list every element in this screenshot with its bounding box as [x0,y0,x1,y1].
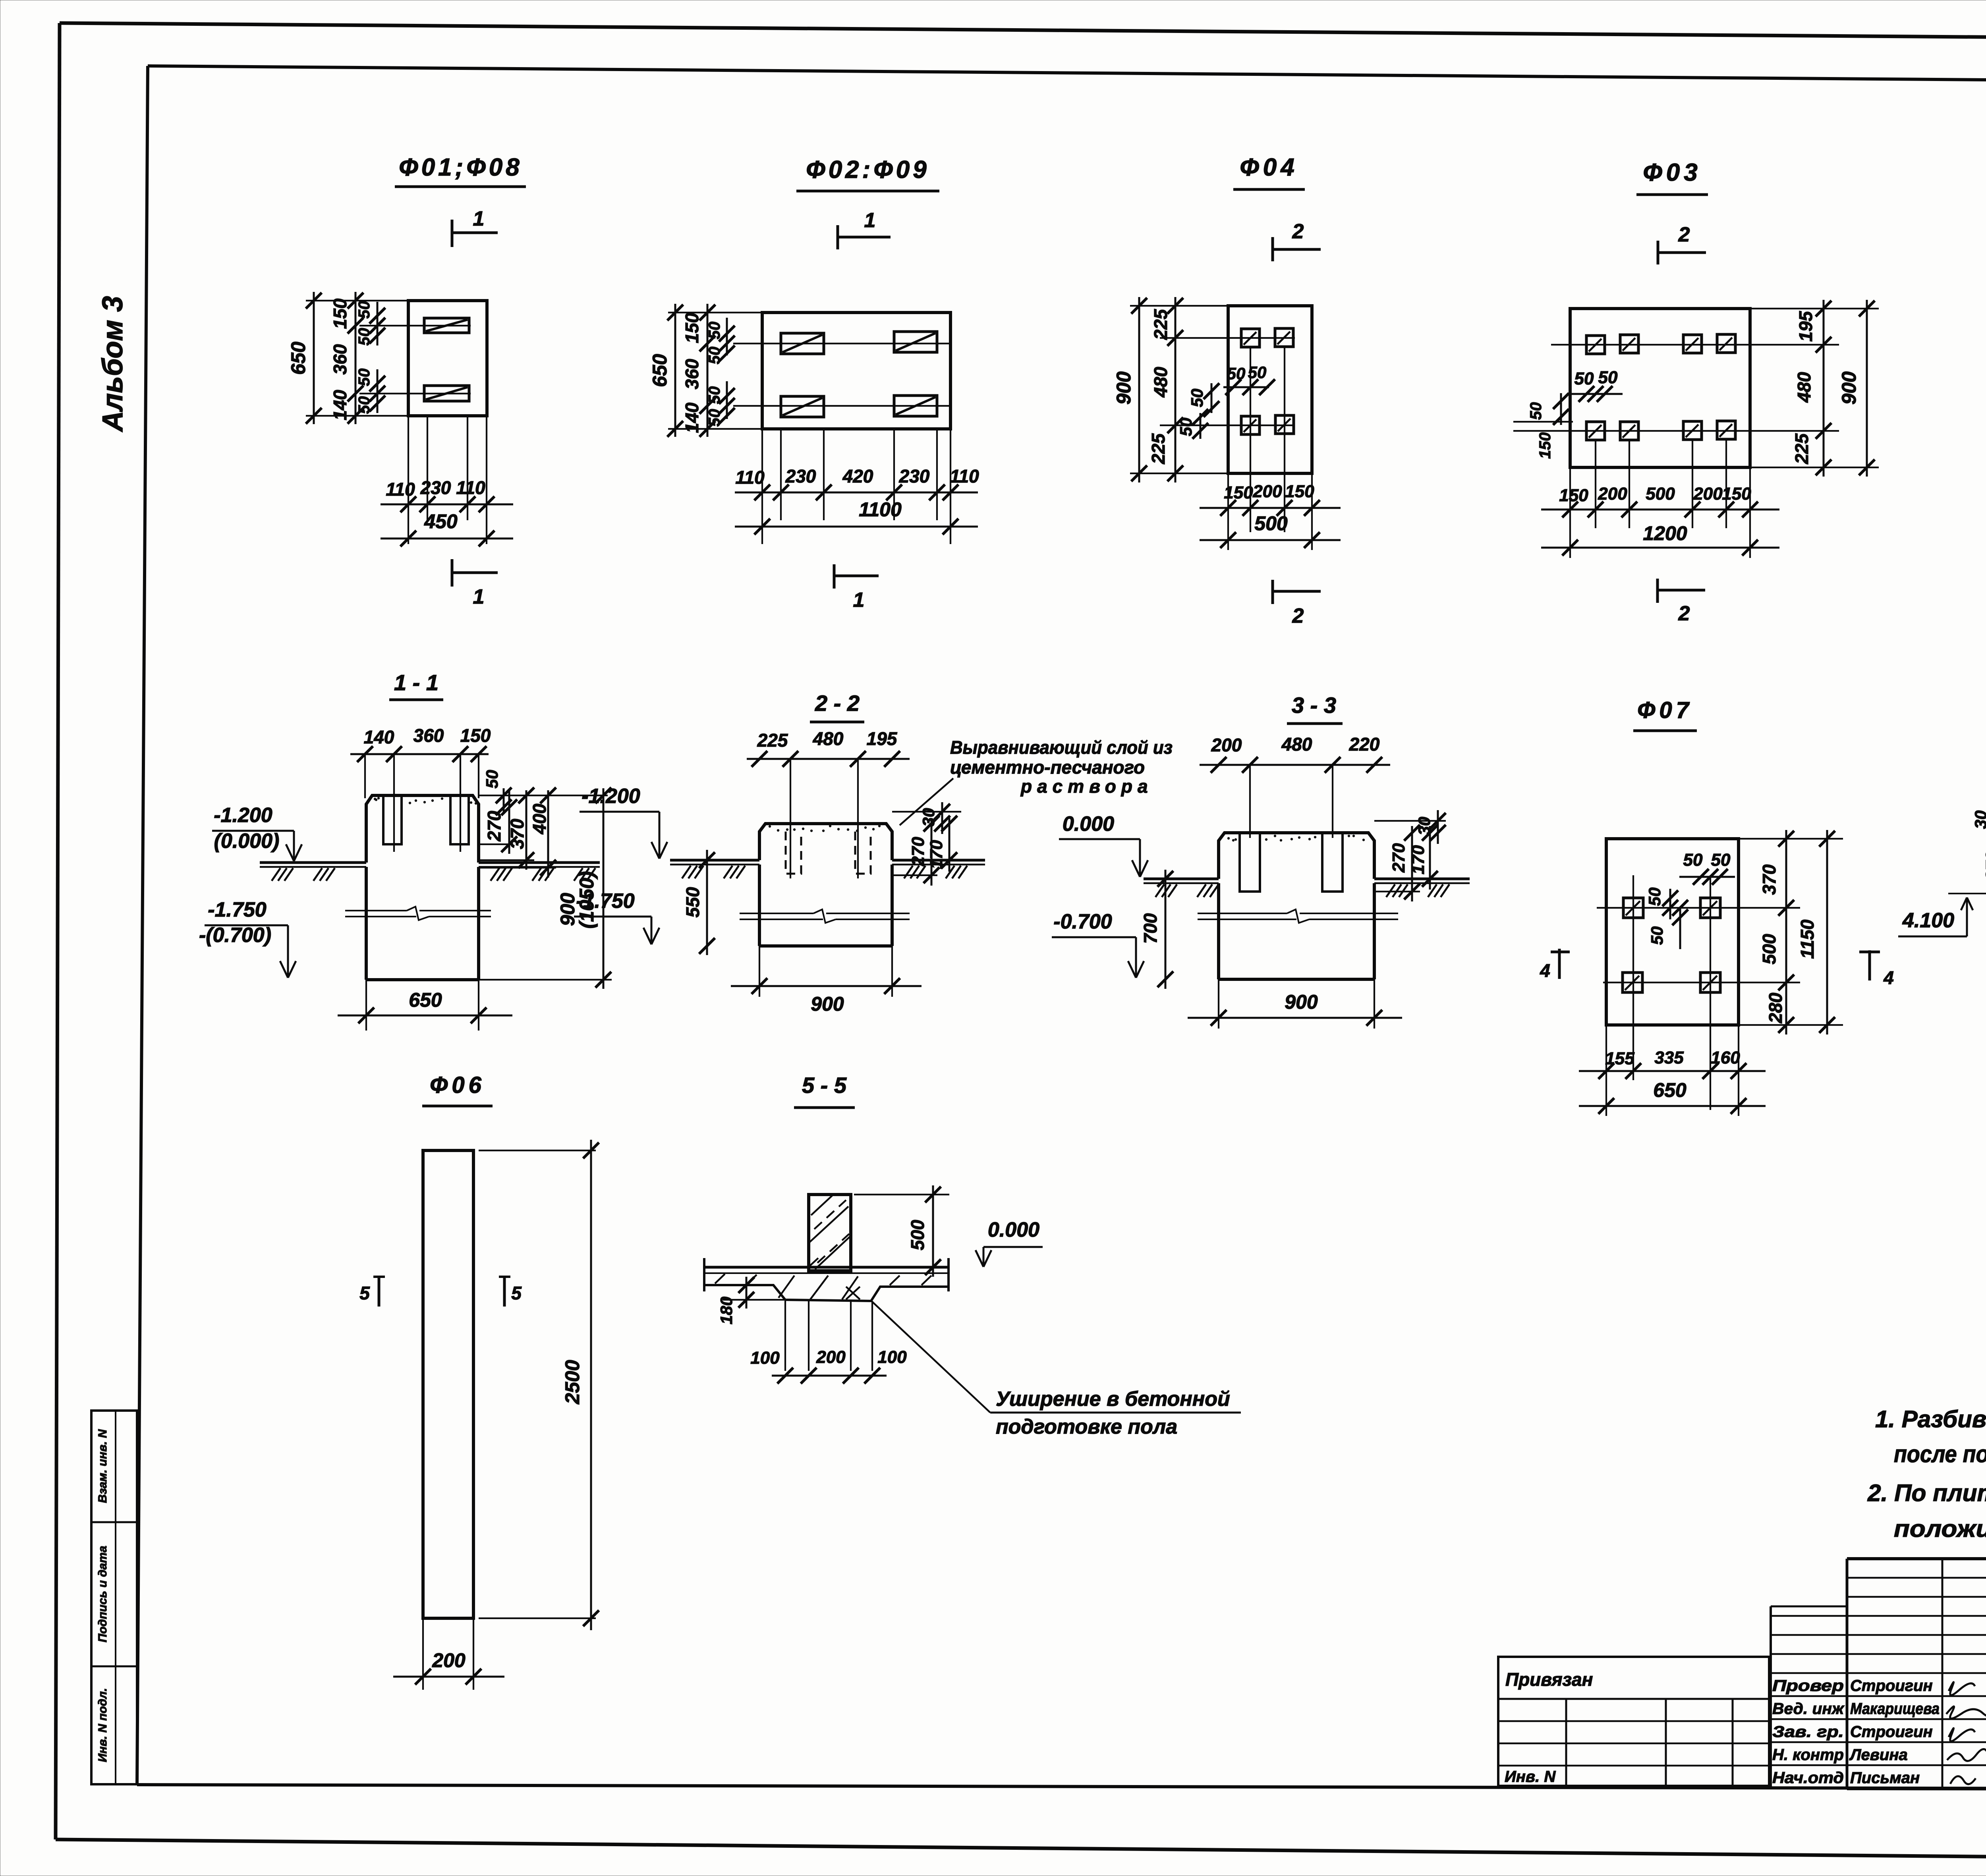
section 2-2 anchor wells dashed [786,832,871,874]
svg-text:-1.750: -1.750 [576,890,635,913]
svg-text:1. Разбивку колодцев под болт: 1. Разбивку колодцев под болты производи… [1875,1406,1986,1432]
title block outer box [1847,1559,1986,1789]
plan Ф03 foundation outline [1570,309,1750,467]
svg-text:Инв. N: Инв. N [1505,1768,1556,1785]
plan Ф01 centre lines [359,326,471,394]
plan Ф06 title [422,1072,493,1106]
section 1-1 ground line left [260,863,366,881]
svg-text:1100: 1100 [859,498,902,521]
svg-text:4: 4 [1540,960,1550,981]
plan Ф04 foundation outline [1228,306,1312,473]
svg-text:650: 650 [409,989,442,1011]
section 3-3 anchor well right [1322,833,1343,892]
svg-text:2: 2 [1678,602,1690,625]
section 1-1 top dimensions 140/360/150 [350,725,491,852]
plan Ф02 left dimensions 150/360/140 [682,304,715,437]
svg-text:положить сетку 30×3.0 ГОСТ 53: положить сетку 30×3.0 ГОСТ 5336-80 (5.6 … [1894,1515,1986,1542]
svg-text:Зав. гр.: Зав. гр. [1772,1723,1844,1741]
svg-text:-0.700: -0.700 [1053,910,1112,933]
svg-text:50: 50 [1598,368,1618,387]
svg-text:270: 270 [1982,851,1986,881]
svg-text:Провер: Провер [1772,1677,1844,1695]
svg-text:150: 150 [1722,484,1751,504]
plan Ф01 bottom dimension 450 [381,510,513,546]
svg-text:Ф04: Ф04 [1240,154,1298,181]
svg-text:700: 700 [1140,913,1161,944]
svg-text:50: 50 [355,396,373,414]
svg-text:50: 50 [1575,369,1594,388]
svg-text:225: 225 [1150,309,1171,340]
svg-text:220: 220 [1349,734,1380,755]
title block signature rows [1771,1677,1986,1787]
svg-text:650: 650 [1653,1079,1687,1101]
plan Ф02 section mark 1 bottom [834,564,879,612]
svg-text:Строигин: Строигин [1850,1677,1933,1695]
section 5-5 bottom dimensions 100/200/100 [750,1347,907,1384]
plan Ф07 bolt squares [1623,898,1720,992]
general notes text [1867,1406,1986,1542]
svg-text:2. По плитам перекрытия на от: 2. По плитам перекрытия на отм. 4.100 по… [1867,1480,1986,1506]
section 5-5 slab hatch [715,1274,931,1299]
svg-text:-1.200: -1.200 [582,785,640,808]
section 3-3 ground line right [1374,879,1470,897]
section 1-1 right dimension 50 [479,770,608,815]
section 3-3 right dimensions 270/170 [1374,825,1438,901]
plan Ф06 right dimension 2500 [479,1140,599,1630]
plan Ф07 right dimension 1150 [1797,830,1835,1035]
section 5-5 widening note text [872,1302,1241,1438]
svg-text:50: 50 [355,369,373,386]
plan Ф02 bottom dimensions 110/230/420/230/110 [735,429,979,544]
section 1-1 title [389,670,443,700]
plan Ф07 bottom dimensions 155/335/160 [1579,1025,1766,1116]
section 2-2 ground line left [670,860,759,878]
section 3-3 top dimensions 200/480/220 [1200,734,1390,838]
svg-text:Ф07: Ф07 [1637,697,1693,723]
svg-text:50: 50 [1648,926,1666,945]
section 2-2 concrete dots [769,825,881,832]
svg-text:480: 480 [1794,372,1814,403]
plan Ф04 bottom dimensions 150/200/150 [1200,473,1341,550]
svg-text:-1.750: -1.750 [208,898,267,921]
svg-text:Левина: Левина [1849,1746,1908,1764]
svg-text:280: 280 [1765,992,1786,1023]
section 2-2 right dimension 550 [682,850,715,955]
svg-text:370: 370 [1759,864,1779,895]
section 1-1 right dimension 370 [479,787,534,870]
section 3-3 foundation outline [1219,833,1374,879]
svg-text:150: 150 [1536,432,1554,459]
section 2-2 right dimension 30 [892,802,961,834]
svg-text:230: 230 [899,466,930,486]
section 3-3 elevation -0.700 [1052,910,1144,978]
svg-text:Письман: Письман [1850,1769,1920,1787]
section 1-1 right dimension 900 (1050) [479,787,612,989]
svg-text:1150: 1150 [1797,919,1818,959]
svg-text:500: 500 [1759,934,1779,964]
section 1-1 anchor well left [383,795,402,844]
svg-text:900: 900 [811,993,844,1015]
svg-text:(0.000): (0.000) [214,830,280,853]
plan Ф03 right dimension 900 [1838,300,1875,477]
section 1-1 elevation -1.200 (0.000) [212,804,302,861]
svg-text:360: 360 [682,359,702,389]
svg-text:50: 50 [1227,364,1246,383]
section 3-3 bottom dimension 900 [1188,979,1402,1029]
svg-text:150: 150 [330,298,350,329]
svg-text:150: 150 [1285,482,1314,501]
svg-text:500: 500 [907,1220,928,1250]
svg-text:225: 225 [1148,433,1169,464]
plan Ф02 foundation outline [762,313,950,429]
plan Ф07 bolt 50/50 dims left [1645,888,1688,949]
svg-text:110: 110 [735,467,765,488]
svg-text:4.100: 4.100 [1902,909,1954,932]
svg-text:Ф03: Ф03 [1643,159,1701,186]
plan Ф07 title [1633,697,1697,731]
svg-text:155: 155 [1605,1049,1634,1068]
section 2-2 levelling layer note text [900,737,1173,825]
svg-text:-1.200: -1.200 [214,804,272,827]
plan Ф01 section mark 1 bottom [452,559,498,608]
svg-text:1: 1 [864,209,876,232]
svg-text:1: 1 [473,585,485,608]
svg-text:1: 1 [853,589,865,612]
section 2-2 right dimensions 270/170 [892,816,957,886]
svg-text:50: 50 [706,347,723,365]
plan Ф03 section mark 2 top [1658,223,1706,264]
svg-text:225: 225 [757,730,788,751]
svg-text:200: 200 [432,1649,466,1671]
svg-text:270: 270 [1389,843,1408,873]
svg-text:5: 5 [511,1283,522,1303]
svg-text:Инв. N подл.: Инв. N подл. [96,1688,109,1762]
section 5-5 title [794,1073,855,1108]
plan Ф04 title [1233,154,1305,189]
section 3-3 title [1287,693,1343,724]
svg-text:900: 900 [1113,371,1135,405]
svg-text:50: 50 [1711,850,1731,870]
svg-text:Строигин: Строигин [1850,1723,1933,1741]
svg-text:Нач.отд: Нач.отд [1772,1769,1844,1787]
svg-text:200: 200 [816,1347,846,1367]
svg-text:150: 150 [1224,483,1253,502]
svg-text:2: 2 [1292,220,1304,243]
svg-text:цементно-песчаного: цементно-песчаного [950,757,1145,778]
section 1-1 anchor well right [450,795,469,844]
plan Ф01 bottom dimensions 110/230/110 [381,416,513,544]
section 2-2 title [810,691,864,722]
plan Ф02 left dimension 650 [649,304,762,437]
svg-text:Взам. инв. N: Взам. инв. N [96,1429,109,1503]
section 4-4 elevation 4.100 [1898,894,1986,936]
svg-text:360: 360 [330,344,350,374]
section 2-2 elevation -1.750 [574,890,659,944]
left stamp strip: Взам.инв.N / Подпись и дата / Инв.N подл. [91,1411,137,1784]
svg-text:480: 480 [813,728,844,749]
svg-text:110: 110 [950,466,979,486]
svg-text:50: 50 [355,328,373,346]
svg-text:370: 370 [507,818,527,849]
svg-text:180: 180 [717,1297,736,1324]
plan Ф03 bottom dimension 1200 [1541,522,1779,556]
svg-text:900: 900 [1838,371,1860,405]
svg-text:50: 50 [706,322,723,340]
plan Ф03 section mark 2 bottom [1658,579,1705,625]
svg-text:3 - 3: 3 - 3 [1292,693,1336,718]
svg-text:2: 2 [1292,604,1304,627]
plan Ф07 centre lines [1597,875,1800,1110]
section 2-2 elevation -1.200 [580,785,667,859]
plan Ф01 foundation outline [408,301,487,416]
section 5-5 widening extension lines [785,1301,872,1371]
svg-text:после получения оборудования.: после получения оборудования. [1894,1441,1986,1467]
section 1-1 ground line right [479,863,600,881]
svg-text:100: 100 [877,1347,907,1367]
plan Ф04 left dimensions 225/480/225 [1148,297,1183,483]
svg-text:195: 195 [867,728,898,749]
svg-text:Вед. инж: Вед. инж [1772,1700,1845,1718]
plan Ф02 section mark 1 top [838,209,891,249]
plan Ф01 left dimensions 150/360/140 [330,292,363,424]
svg-text:5: 5 [359,1283,370,1303]
svg-text:50: 50 [355,301,373,319]
svg-text:50: 50 [706,409,723,427]
svg-text:225: 225 [1791,433,1812,464]
plan Ф04 centre lines [1160,338,1295,532]
plan Ф03 title [1636,159,1708,195]
plan Ф03 bottom dimensions 150/200/500/200/150 [1541,440,1779,558]
section 4-4 left dimension 270 [1982,837,1986,894]
plan Ф01 slot lower [424,386,469,401]
svg-text:Ф06: Ф06 [430,1072,485,1098]
svg-text:150: 150 [460,725,491,746]
svg-text:400: 400 [529,803,550,834]
plan Ф06 wall foundation outline [423,1150,473,1618]
section 2-2 lower footing with break [740,865,910,946]
svg-text:Уширение в бетонной: Уширение в бетонной [996,1388,1230,1411]
svg-text:50: 50 [1683,850,1703,870]
section 2-2 bottom dimension 900 [731,946,922,1015]
svg-text:раствора: раствора [1020,776,1153,797]
plan Ф03 right dimensions 195/480/225 [1750,300,1879,477]
plan Ф01 section mark 1 top [452,207,498,247]
plan Ф02 slot 50/50 dims [706,318,735,427]
section 3-3 right dimension 30 [1374,810,1446,844]
svg-text:Привязан: Привязан [1505,1669,1593,1690]
plan Ф07 section mark 4 left [1540,949,1570,981]
svg-text:170: 170 [1408,845,1428,874]
svg-text:Макарищева: Макарищева [1850,1700,1940,1718]
svg-text:0.000: 0.000 [988,1218,1039,1241]
svg-text:480: 480 [1150,367,1171,398]
svg-text:450: 450 [424,510,458,533]
section 2-2 foundation outline [759,824,892,860]
svg-text:200: 200 [1211,735,1242,755]
plan Ф03 bolt 50/50 dims [1527,368,1623,459]
section 5-5 dimension 180 [717,1277,785,1324]
plan Ф07 foundation outline [1606,839,1739,1025]
plan Ф07 bolt 50/50 dims top [1679,850,1735,885]
svg-text:110: 110 [386,479,415,500]
section 1-1 lower footing with break [345,867,491,980]
svg-text:200: 200 [1693,484,1723,504]
svg-text:2: 2 [1678,223,1690,246]
plan Ф03 centre lines [1513,345,1839,431]
plan Ф04 bolt squares [1241,328,1294,434]
section 3-3 elevation 0.000 [1059,813,1148,877]
section 1-1 foundation pedestal outline [366,795,479,863]
svg-text:500: 500 [1254,512,1288,535]
plan Ф04 bolt 50/50 dims [1177,363,1275,439]
section 5-5 slab soffit with widening [704,1285,949,1301]
title block signatures squiggles [1946,1682,1986,1784]
svg-text:150: 150 [682,313,702,343]
plan Ф02 centre lines [733,344,950,406]
svg-text:подготовке пола: подготовке пола [996,1415,1177,1438]
plan Ф03 bolt squares bottom row [1586,421,1735,440]
svg-text:4: 4 [1883,967,1894,988]
plan Ф04 bottom dimension 500 [1200,512,1341,548]
plan Ф01 slot 50/50 dims [355,301,385,414]
plan Ф07 bottom dimension 650 [1579,1079,1766,1114]
svg-text:30: 30 [919,808,938,827]
svg-text:50: 50 [706,386,723,404]
section 2-2 top dimensions 225/480/195 [747,728,910,878]
svg-text:200: 200 [1598,484,1627,504]
svg-text:160: 160 [1711,1048,1740,1067]
section 3-3 lower footing with break [1198,883,1398,979]
section 3-3 ground line left [1144,879,1219,897]
svg-text:200: 200 [1252,482,1282,501]
plan Ф07 right dimensions 370/500/280 [1739,830,1843,1035]
svg-text:140: 140 [682,402,702,433]
section 1-1 bottom dimension 650 [338,980,512,1031]
plan Ф06 bottom dimension 200 [393,1618,504,1690]
svg-text:30: 30 [1971,811,1986,829]
section 1-1 right dimension 400 [479,787,556,878]
svg-text:110: 110 [456,477,485,498]
svg-text:1: 1 [473,207,485,230]
svg-text:50: 50 [483,770,501,789]
plan Ф04 section mark 2 bottom [1273,580,1321,627]
section 5-5 elevation 0.000 [976,1218,1043,1267]
svg-text:650: 650 [287,342,309,375]
svg-text:5 - 5: 5 - 5 [802,1073,847,1098]
svg-text:1 - 1: 1 - 1 [394,670,439,695]
section 1-1 right dimension 270 [479,790,517,854]
section 3-3 anchor well left [1240,833,1260,892]
svg-text:150: 150 [1559,486,1588,505]
svg-text:2500: 2500 [561,1360,583,1404]
svg-text:270: 270 [484,811,504,841]
plan Ф04 section mark 2 top [1273,220,1321,261]
svg-text:Выравнивающий слой из: Выравнивающий слой из [950,737,1173,758]
plan Ф01;Ф08 title [395,154,526,187]
svg-text:230: 230 [785,466,816,486]
svg-text:2 - 2: 2 - 2 [815,691,860,716]
svg-text:50: 50 [1645,888,1664,906]
svg-text:650: 650 [649,354,671,387]
svg-text:270: 270 [908,837,928,867]
section 1-1 concrete dots [374,797,380,801]
section 4-4 left dimension 30 [1971,811,1986,854]
svg-text:140: 140 [330,390,350,420]
plan Ф02;Ф09 title [796,156,939,191]
svg-text:195: 195 [1795,311,1816,342]
svg-text:100: 100 [750,1348,780,1368]
svg-text:Подпись и дата: Подпись и дата [96,1546,109,1642]
section 3-3 concrete dots [1227,837,1237,841]
svg-text:0.000: 0.000 [1063,813,1114,836]
title block left sign grid [1771,1559,1986,1789]
section 5-5 dimension 500 [854,1185,949,1277]
plan Ф06 section mark 5 left [359,1277,385,1307]
svg-text:-(0.700): -(0.700) [199,924,271,947]
svg-text:Н. контр: Н. контр [1772,1746,1844,1764]
section 5-5 floor slab [704,1258,949,1291]
plan Ф06 section mark 5 right [499,1277,522,1307]
plan Ф02 bottom dimension 1100 [735,498,978,535]
svg-text:900: 900 [1285,991,1318,1013]
plan Ф02 slot upper-left [781,333,824,354]
svg-text:Ф02:Ф09: Ф02:Ф09 [806,156,929,183]
plan Ф01 left dimension 650 [287,292,408,424]
section 3-3 left dimension 700 [1140,870,1173,989]
section 5-5 column hatched [809,1195,851,1271]
plan Ф04 left dimension 900 [1113,297,1228,483]
album label: Альбом 3 (vertical) [97,296,129,432]
svg-text:500: 500 [1646,484,1675,504]
plan Ф02 slot upper-right [894,332,937,352]
plan Ф03 bolt squares top row [1586,334,1735,354]
plan Ф01 slot upper [424,318,469,333]
section 1-1 elevation -1.750 -(0.700) [199,898,296,978]
svg-text:50: 50 [1177,418,1195,436]
svg-text:1200: 1200 [1643,522,1687,544]
svg-text:140: 140 [364,727,394,747]
svg-text:50: 50 [1527,402,1545,420]
svg-text:550: 550 [682,887,703,917]
svg-text:335: 335 [1654,1048,1684,1067]
plan Ф02 slot lower-right [894,396,937,416]
plan Ф02 slot lower-left [781,396,824,417]
plan Ф07 section mark 4 right [1859,950,1894,988]
svg-text:420: 420 [842,466,873,486]
svg-text:170: 170 [927,840,946,869]
bound-note table Привязан [1498,1657,1769,1786]
svg-text:230: 230 [420,477,451,498]
svg-text:360: 360 [413,725,444,746]
svg-text:480: 480 [1281,734,1312,755]
svg-text:Ф01;Ф08: Ф01;Ф08 [399,154,522,181]
section 2-2 ground line right [892,860,985,878]
svg-text:Альбом 3: Альбом 3 [97,296,129,432]
